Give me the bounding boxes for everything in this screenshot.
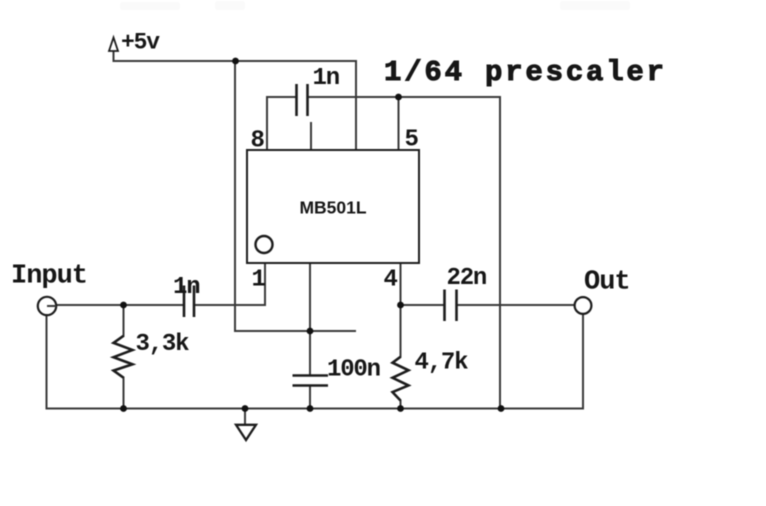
- svg-text:1: 1: [252, 267, 266, 294]
- svg-text:4: 4: [384, 267, 398, 294]
- svg-text:+5v: +5v: [121, 30, 160, 56]
- svg-text:3,3k: 3,3k: [136, 331, 190, 358]
- svg-text:4,7k: 4,7k: [415, 350, 469, 377]
- svg-text:100n: 100n: [327, 357, 380, 384]
- svg-text:5: 5: [405, 127, 419, 154]
- svg-text:1n: 1n: [173, 274, 199, 301]
- svg-text:1/64 prescaler: 1/64 prescaler: [384, 56, 667, 89]
- svg-text:1n: 1n: [313, 65, 339, 92]
- svg-text:MB501L: MB501L: [299, 198, 366, 218]
- svg-text:Input: Input: [11, 262, 87, 292]
- svg-text:Out: Out: [584, 268, 630, 298]
- svg-text:22n: 22n: [447, 265, 487, 292]
- svg-text:8: 8: [251, 128, 265, 155]
